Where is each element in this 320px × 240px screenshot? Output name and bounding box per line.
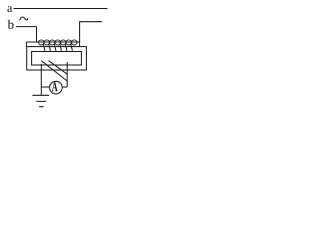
node b label	[8, 20, 14, 29]
wire coil to top right	[80, 22, 102, 47]
wire terminal b	[16, 26, 37, 28]
wire right drop	[66, 62, 68, 87]
coil L1 winding tails	[43, 44, 72, 51]
wire to ammeter left	[41, 86, 49, 88]
coil L1 turns	[39, 40, 78, 42]
wire diagonal d2	[49, 61, 68, 75]
coil L1 turn bottoms	[39, 42, 78, 45]
core frame outer	[27, 47, 87, 70]
wire diagonal d1	[42, 61, 68, 81]
wire b to coil	[36, 27, 38, 42]
wire ammeter right	[62, 86, 67, 88]
ground	[32, 95, 49, 106]
AC source tilde	[20, 17, 29, 20]
core frame inner	[32, 52, 82, 66]
wire left drop to ground	[40, 64, 42, 95]
ammeter A1	[50, 81, 63, 94]
coil L1 lead line	[26, 41, 79, 43]
wire terminal a	[14, 8, 108, 10]
node a label	[7, 6, 12, 12]
wire core left stub	[25, 42, 27, 47]
